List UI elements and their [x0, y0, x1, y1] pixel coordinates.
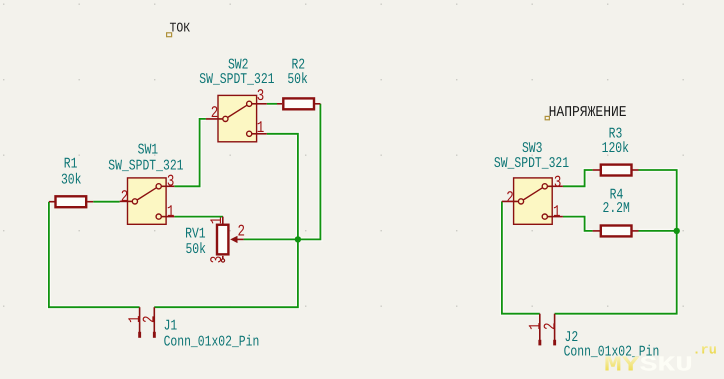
- wire SW3 pin1 to R4 left: [563, 217, 593, 231]
- switch SW3: [494, 142, 569, 225]
- svg-text:2: 2: [141, 315, 159, 323]
- svg-text:R3: R3: [609, 127, 623, 143]
- svg-text:MYSKU: MYSKU: [604, 353, 693, 377]
- svg-text:3: 3: [208, 256, 226, 264]
- svg-text:2: 2: [238, 222, 246, 240]
- svg-text:R2: R2: [291, 58, 305, 74]
- svg-text:SW_SPDT_321: SW_SPDT_321: [199, 73, 274, 89]
- svg-text:.ru: .ru: [693, 344, 717, 359]
- wire SW3 pin2 down to bottom rail to J2 pin1: [502, 201, 540, 313]
- switch SW1: [108, 143, 183, 224]
- svg-text:2: 2: [121, 188, 129, 206]
- wire R4 right to junction: [639, 230, 677, 232]
- svg-text:НАПРЯЖЕНИЕ: НАПРЯЖЕНИЕ: [549, 103, 627, 120]
- wire R2 right down to RV1 wiper: [244, 104, 321, 240]
- watermark MYSKU.ru: [604, 344, 717, 378]
- svg-text:J2: J2: [565, 330, 579, 346]
- svg-text:3: 3: [257, 87, 265, 105]
- svg-text:50k: 50k: [185, 241, 206, 258]
- svg-text:1: 1: [553, 203, 561, 221]
- wire SW3 pin3 to R3 left: [563, 170, 593, 186]
- junction left: [295, 236, 301, 242]
- wire SW1 pin1 to RV1 pin1: [174, 216, 223, 218]
- svg-text:R1: R1: [64, 157, 78, 173]
- svg-text:3: 3: [554, 173, 562, 191]
- svg-text:SW1: SW1: [138, 143, 159, 159]
- wire SW2 pin3 to R2: [267, 103, 277, 105]
- svg-text:2: 2: [541, 322, 559, 330]
- svg-text:1: 1: [167, 203, 175, 221]
- svg-text:50k: 50k: [287, 71, 308, 88]
- wire SW1 pin3 to SW2 pin2: [174, 119, 206, 186]
- svg-text:SW_SPDT_321: SW_SPDT_321: [494, 157, 569, 173]
- svg-text:SW3: SW3: [522, 142, 543, 158]
- wire halos: [49, 104, 677, 314]
- svg-text:J1: J1: [164, 319, 178, 335]
- label TOK: [167, 21, 191, 37]
- svg-text:1: 1: [257, 119, 265, 137]
- connector J2: [527, 314, 660, 361]
- wire R1-left down to bottom rail and to J1 pin1: [49, 202, 140, 308]
- svg-text:SW2: SW2: [228, 58, 249, 74]
- resistor R3: [593, 127, 639, 176]
- svg-text:3: 3: [167, 173, 175, 191]
- label NAPRYAZHENIE: [545, 103, 627, 120]
- svg-text:ТОК: ТОК: [170, 21, 191, 36]
- svg-text:2: 2: [506, 189, 514, 207]
- svg-text:1: 1: [208, 217, 226, 225]
- wire R1 right to SW1 pin2: [93, 201, 120, 203]
- resistor R2: [277, 58, 320, 109]
- resistor R4: [593, 188, 639, 236]
- connector J1: [126, 307, 259, 350]
- svg-text:2.2M: 2.2M: [603, 202, 631, 218]
- svg-text:2: 2: [211, 104, 219, 122]
- wire J2 pin2 right, up to R3 right: [555, 170, 677, 314]
- potentiometer RV1: [185, 217, 245, 264]
- svg-text:30k: 30k: [61, 172, 82, 189]
- resistor R1: [49, 157, 93, 207]
- junction right: [674, 228, 680, 234]
- svg-text:Conn_01x02_Pin: Conn_01x02_Pin: [164, 334, 260, 351]
- wire bottom rail right, up through junction to SW2 pin1: [154, 134, 298, 307]
- svg-text:120k: 120k: [602, 140, 630, 157]
- svg-text:RV1: RV1: [185, 227, 206, 243]
- switch SW2: [199, 58, 274, 142]
